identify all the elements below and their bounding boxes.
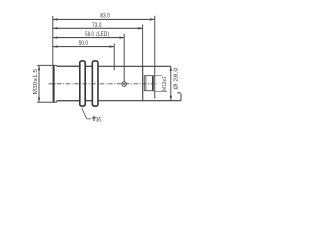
node barrel bottom edge segments: [57, 100, 79, 102]
wire extension line 83.0: [154, 16, 156, 99]
node cap step bottom: [56, 101, 58, 103]
node sensing face thick edge: [53, 65, 55, 102]
svg-text:M12x1: M12x1: [162, 76, 168, 91]
node housing end edge: [142, 66, 144, 100]
node hex nut 1: [80, 61, 85, 106]
node M12 connector body: [144, 76, 153, 91]
wire arrow 73.0 left: [53, 27, 58, 29]
wire extension line 58.0 LED: [123, 34, 125, 81]
wire arrow 83.0 left: [53, 18, 58, 20]
svg-text:83.0: 83.0: [100, 13, 110, 20]
svg-text:Ø 28.0: Ø 28.0: [173, 67, 179, 89]
wire centerline: [49, 83, 158, 85]
wire extension line at sensing face datum: [52, 16, 54, 65]
wire arrow 50.0 right: [110, 45, 115, 47]
wire arrow 73.0 right: [138, 27, 143, 29]
wire extension line 50.0: [113, 44, 115, 71]
node cap step top: [56, 64, 58, 67]
wire arrow 58.0 left: [53, 36, 58, 38]
wire arrow M30 top: [38, 65, 40, 70]
wire M12 extension top: [153, 75, 162, 77]
wire M12 extension bottom: [153, 91, 167, 93]
wire arrow 58.0 right: [120, 36, 125, 38]
svg-text:50.0: 50.0: [79, 40, 89, 47]
node M12 connector end face thick edge: [152, 76, 154, 91]
node sensor cap top edge and M30 extension: [37, 64, 57, 66]
node sensor cap bottom edge and M30 extension: [37, 101, 57, 103]
wire arrow dia28 bottom: [170, 96, 172, 101]
node hex nut 2: [92, 61, 98, 106]
node LED indicator circle: [122, 82, 127, 87]
svg-text:M30x1.5: M30x1.5: [33, 69, 39, 95]
svg-text:36: 36: [96, 116, 101, 123]
wire arrow 50.0 left: [53, 45, 58, 47]
wire extension line 73.0: [142, 25, 144, 67]
node LED center dot: [123, 83, 125, 85]
wire arrow dia28 top: [170, 66, 172, 71]
wire arrow 83.0 right: [150, 18, 155, 20]
wire dimension line 73.0: [53, 27, 143, 29]
svg-text:58.0: 58.0: [85, 31, 94, 38]
wire arrow M30 bottom: [38, 98, 40, 103]
wire dimension line 58.0: [53, 37, 124, 39]
wire diameter 28 dimension line: [170, 66, 172, 100]
node barrel top edge segments: [57, 65, 79, 67]
node tolerance mark under dia label: [177, 92, 181, 100]
wire M30 dimension line: [38, 65, 40, 102]
svg-text:73.0: 73.0: [92, 22, 102, 29]
wire dimension line 50.0: [53, 46, 114, 48]
wire leader for wrench size 36: [82, 108, 92, 119]
svg-text:(LED): (LED): [96, 31, 109, 38]
node wrench size symbol: [92, 116, 96, 121]
wire dimension line 83.0: [53, 18, 155, 20]
